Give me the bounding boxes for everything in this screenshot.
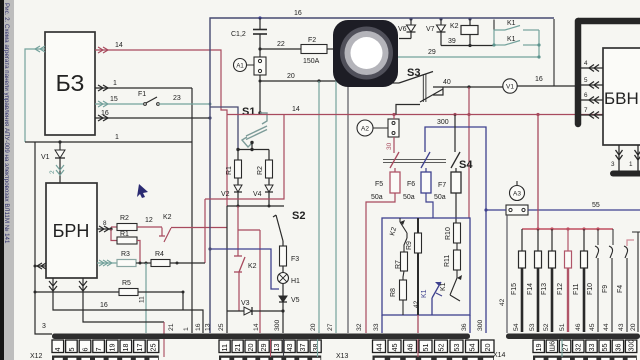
diode V5 bbox=[279, 296, 300, 311]
ammeter A3 with shunt bbox=[506, 181, 528, 215]
svg-text:53: 53 bbox=[529, 323, 536, 331]
wire teal loop left of БЗ bbox=[25, 46, 45, 142]
relay contact K2 (left) bbox=[159, 228, 227, 243]
connector X14 pins group D bbox=[533, 340, 637, 353]
node V5-V3 bbox=[281, 309, 284, 312]
resistor R2 bbox=[111, 215, 137, 231]
svg-text:13: 13 bbox=[272, 344, 281, 352]
fuse F6 50a bbox=[403, 168, 433, 218]
svg-text:300: 300 bbox=[477, 319, 484, 331]
svg-text:51: 51 bbox=[559, 323, 566, 331]
svg-text:52: 52 bbox=[436, 344, 445, 352]
svg-text:22: 22 bbox=[277, 41, 285, 48]
svg-text:45: 45 bbox=[390, 344, 399, 352]
ammeter A1 with shunt bbox=[234, 57, 267, 75]
svg-text:6: 6 bbox=[584, 92, 588, 99]
svg-text:44: 44 bbox=[374, 344, 383, 352]
svg-text:S1: S1 bbox=[242, 106, 255, 118]
thick frame top right bbox=[578, 18, 640, 25]
svg-text:R4: R4 bbox=[155, 251, 164, 258]
wire 12 bbox=[137, 226, 162, 228]
svg-text:S3: S3 bbox=[407, 67, 420, 79]
wire 300 blue bbox=[425, 127, 486, 333]
wire pass-through 27D bbox=[561, 339, 563, 357]
svg-text:27: 27 bbox=[327, 323, 334, 331]
fuse F3 bbox=[280, 246, 300, 273]
svg-text:20: 20 bbox=[630, 323, 637, 331]
svg-text:11: 11 bbox=[220, 344, 229, 351]
svg-text:R8: R8 bbox=[390, 288, 397, 297]
fuse F15 bbox=[511, 229, 526, 332]
svg-text:V1: V1 bbox=[41, 154, 50, 161]
wire 20 bbox=[260, 75, 348, 81]
svg-text:46: 46 bbox=[405, 344, 414, 352]
svg-text:23: 23 bbox=[173, 95, 181, 102]
wire grey vertical mid bbox=[347, 81, 349, 333]
connector X12 pins group B bbox=[219, 340, 321, 353]
resistor R4 bbox=[151, 251, 205, 267]
БРН bottom pin wire 21 bbox=[79, 278, 164, 322]
svg-text:R9: R9 bbox=[406, 241, 413, 250]
svg-text:K1: K1 bbox=[507, 20, 516, 27]
diode V4 bbox=[253, 185, 273, 206]
resistor R11 bbox=[444, 243, 461, 270]
relay contact K2 (mid) bbox=[234, 256, 245, 272]
diode V1 bbox=[41, 142, 65, 183]
svg-text:V4: V4 bbox=[253, 191, 262, 198]
fuse F11 bbox=[573, 229, 588, 332]
wire 3 left vertical bbox=[35, 142, 52, 334]
switch S3 bbox=[385, 67, 443, 115]
svg-text:20: 20 bbox=[310, 323, 317, 331]
svg-text:7: 7 bbox=[94, 348, 103, 352]
wire 25 to connector bbox=[226, 206, 228, 333]
svg-text:21: 21 bbox=[233, 344, 242, 352]
svg-text:F2: F2 bbox=[308, 37, 316, 44]
svg-text:32: 32 bbox=[574, 344, 583, 352]
fuse F14 bbox=[527, 229, 542, 332]
svg-text:50a: 50a bbox=[434, 194, 446, 201]
diode V2 bbox=[221, 185, 242, 206]
svg-text:11: 11 bbox=[139, 296, 146, 303]
block БВН bbox=[603, 48, 640, 145]
svg-text:F5: F5 bbox=[375, 181, 383, 188]
wire 14 right pink bbox=[627, 240, 634, 246]
resistor R5 bbox=[34, 280, 185, 310]
wire 23 bbox=[159, 103, 210, 105]
svg-text:21: 21 bbox=[168, 323, 175, 331]
pin 8 wire bbox=[97, 226, 111, 232]
svg-text:44: 44 bbox=[603, 323, 610, 331]
svg-text:4: 4 bbox=[53, 348, 62, 352]
svg-text:Ш6: Ш6 bbox=[547, 341, 556, 352]
svg-text:19: 19 bbox=[108, 344, 117, 352]
svg-text:F1: F1 bbox=[138, 91, 146, 98]
fuse F12 bbox=[557, 229, 572, 332]
wire 15 from БЗ bbox=[95, 101, 143, 107]
svg-text:32: 32 bbox=[356, 323, 363, 331]
wire 39 bbox=[441, 45, 494, 47]
svg-text:Рис. 2. Схема агрегата панели: Рис. 2. Схема агрегата панели управления… bbox=[3, 3, 10, 244]
capacitor C1,2 bbox=[231, 18, 267, 57]
connector X12 bar bbox=[52, 334, 470, 340]
svg-text:20: 20 bbox=[287, 73, 295, 80]
node V1 top bbox=[58, 140, 61, 143]
svg-text:53: 53 bbox=[452, 344, 461, 352]
wire pass-through 42 bbox=[417, 339, 419, 357]
wire 29 teal bbox=[336, 56, 539, 58]
fuse F13 bbox=[541, 229, 556, 332]
svg-text:150A: 150A bbox=[303, 58, 320, 65]
svg-text:K1: K1 bbox=[440, 282, 447, 291]
svg-text:R1: R1 bbox=[120, 231, 129, 238]
svg-text:39: 39 bbox=[448, 38, 456, 45]
svg-text:F3: F3 bbox=[291, 256, 299, 263]
svg-text:29: 29 bbox=[428, 49, 436, 56]
wire 40 bbox=[433, 86, 503, 88]
svg-text:R3: R3 bbox=[121, 251, 130, 258]
wire 22 bbox=[258, 47, 261, 50]
svg-text:БЗ: БЗ bbox=[56, 70, 85, 96]
wire 300 drop bbox=[282, 311, 284, 333]
svg-text:R5: R5 bbox=[122, 280, 131, 287]
wire 42 grey vertical bbox=[506, 215, 508, 333]
svg-text:5: 5 bbox=[584, 77, 588, 84]
thick bar below БВН bbox=[613, 171, 640, 177]
resistor R10 bbox=[445, 223, 461, 243]
svg-text:K2: K2 bbox=[450, 23, 459, 30]
svg-text:36: 36 bbox=[613, 344, 622, 352]
svg-text:A1: A1 bbox=[236, 64, 244, 70]
svg-text:S2: S2 bbox=[292, 210, 305, 222]
svg-text:X12: X12 bbox=[30, 353, 43, 360]
svg-text:43: 43 bbox=[285, 344, 294, 352]
wire 55 blue bbox=[486, 209, 640, 211]
svg-text:V6: V6 bbox=[398, 26, 407, 33]
svg-text:1: 1 bbox=[629, 161, 633, 168]
wire 20 drop to connector bbox=[318, 81, 320, 333]
svg-text:52: 52 bbox=[543, 323, 550, 331]
БВН bottom pin 3 bbox=[616, 145, 623, 171]
svg-text:R7: R7 bbox=[395, 260, 402, 269]
БВН pin 7 bbox=[581, 112, 603, 119]
svg-text:БВН: БВН bbox=[604, 89, 639, 108]
svg-text:R10: R10 bbox=[445, 227, 452, 240]
svg-text:F9: F9 bbox=[602, 285, 609, 293]
svg-text:16: 16 bbox=[100, 302, 108, 309]
switch S1 bbox=[210, 81, 269, 160]
switch S2 bbox=[273, 210, 305, 246]
wire blue H1 feed bbox=[210, 249, 279, 289]
svg-text:37: 37 bbox=[298, 344, 307, 352]
webcam overlay bbox=[333, 20, 398, 87]
svg-text:40: 40 bbox=[443, 79, 451, 86]
svg-text:R1: R1 bbox=[226, 166, 233, 175]
svg-text:F11: F11 bbox=[573, 283, 580, 295]
svg-text:43: 43 bbox=[618, 323, 625, 331]
svg-text:14: 14 bbox=[292, 106, 300, 113]
resistor R7 bbox=[395, 238, 408, 271]
resistor R2 (S1 branch) bbox=[257, 160, 273, 185]
БРН left pin arrows bbox=[35, 263, 46, 269]
svg-text:55: 55 bbox=[592, 202, 600, 209]
resistor R8 bbox=[390, 271, 407, 315]
wire 27 teal vertical bbox=[335, 57, 337, 333]
wire S4 black feed bbox=[454, 115, 456, 153]
wire 1 from БЗ bbox=[95, 85, 192, 91]
wire 2 chevrons bbox=[56, 165, 64, 175]
svg-text:42: 42 bbox=[413, 300, 420, 308]
svg-text:F6: F6 bbox=[407, 181, 415, 188]
svg-text:A3: A3 bbox=[513, 191, 521, 198]
БВН pin 5 bbox=[581, 82, 603, 89]
relay logic box bbox=[382, 218, 470, 315]
svg-text:K1: K1 bbox=[421, 289, 428, 298]
lamp H1 bbox=[278, 273, 301, 297]
svg-text:F7: F7 bbox=[438, 182, 446, 189]
resistor R3 bbox=[97, 251, 136, 267]
wire 12 vertical crimson bbox=[204, 199, 206, 263]
relay contact K1 (blue) bbox=[421, 282, 442, 315]
svg-text:45: 45 bbox=[589, 323, 596, 331]
fuse F10 bbox=[587, 229, 599, 332]
svg-text:54: 54 bbox=[513, 323, 520, 331]
node R3-R4 bbox=[136, 262, 151, 264]
relay contact K1 lower bbox=[494, 30, 539, 57]
svg-text:300: 300 bbox=[627, 340, 636, 352]
wire 14 long crimson bbox=[227, 114, 636, 116]
svg-text:55: 55 bbox=[600, 344, 609, 352]
svg-text:A2: A2 bbox=[361, 126, 369, 133]
wire 30 bbox=[393, 137, 395, 153]
relay contact K2 (box) bbox=[389, 218, 407, 238]
svg-text:K1: K1 bbox=[507, 36, 516, 43]
fuse rail crimson bbox=[522, 228, 613, 230]
svg-text:2: 2 bbox=[49, 170, 56, 174]
fuse F9 bbox=[602, 229, 613, 332]
diode V7 bbox=[426, 17, 446, 45]
diode V6 bbox=[398, 17, 416, 38]
svg-text:300: 300 bbox=[437, 119, 449, 126]
БВН pin 4 bbox=[581, 65, 603, 72]
wire pass-through 300 bbox=[283, 339, 285, 357]
connector X14 bar bbox=[506, 334, 640, 340]
БВН pin 6 bbox=[581, 97, 603, 104]
svg-text:F14: F14 bbox=[527, 283, 534, 295]
svg-text:33: 33 bbox=[373, 323, 380, 331]
svg-text:300: 300 bbox=[274, 319, 281, 331]
connector X13 pins group C bbox=[373, 340, 495, 353]
svg-text:33: 33 bbox=[587, 344, 596, 352]
svg-text:50a: 50a bbox=[403, 194, 415, 201]
svg-text:15: 15 bbox=[110, 96, 118, 103]
svg-text:1: 1 bbox=[115, 134, 119, 141]
wire 11 teal vertical bbox=[145, 263, 147, 333]
wire 1 vertical to connector bbox=[191, 88, 193, 333]
svg-text:1: 1 bbox=[183, 327, 190, 331]
fuse F2 150A bbox=[301, 37, 340, 65]
svg-text:R11: R11 bbox=[444, 255, 451, 267]
svg-text:17: 17 bbox=[135, 344, 144, 352]
fuse F5 50a bbox=[366, 168, 400, 333]
svg-text:C1,2: C1,2 bbox=[231, 31, 246, 38]
scan grey caption strip bbox=[4, 0, 14, 360]
svg-text:K2: K2 bbox=[248, 263, 257, 270]
svg-text:14: 14 bbox=[253, 323, 260, 331]
svg-text:X13: X13 bbox=[336, 353, 349, 360]
wire 36 drop bbox=[469, 315, 471, 333]
diode V3 bbox=[227, 300, 283, 315]
svg-text:20: 20 bbox=[483, 344, 492, 352]
svg-text:F4: F4 bbox=[617, 285, 624, 293]
resistor R9 bbox=[406, 218, 422, 315]
enclosure box right bbox=[553, 19, 555, 86]
svg-text:8: 8 bbox=[103, 220, 107, 227]
block БРН bbox=[46, 183, 97, 278]
БВН bottom pin 1 bbox=[635, 145, 640, 171]
wire pass-through 38 bbox=[317, 339, 319, 357]
wire 14 from БЗ bbox=[95, 47, 227, 206]
svg-text:16: 16 bbox=[294, 10, 302, 17]
wire 40-14 link bbox=[468, 87, 470, 218]
svg-text:X14: X14 bbox=[493, 352, 506, 359]
svg-text:S4: S4 bbox=[459, 159, 473, 171]
svg-text:54: 54 bbox=[467, 344, 476, 352]
connector X12 pins group A bbox=[52, 340, 159, 353]
wire 42 crimson drop bbox=[417, 315, 419, 333]
wire 33 drop bbox=[381, 315, 383, 333]
svg-text:R2: R2 bbox=[120, 215, 129, 222]
svg-text:V2: V2 bbox=[221, 191, 230, 198]
wire 14 box crimson bbox=[205, 115, 284, 200]
block БЗ bbox=[45, 32, 95, 135]
svg-text:42: 42 bbox=[499, 298, 506, 306]
wire 16 top blue bbox=[210, 18, 554, 333]
wire from K2 to V3 bbox=[238, 272, 240, 311]
scan left black edge bbox=[0, 0, 4, 360]
svg-text:19: 19 bbox=[534, 344, 543, 352]
wire 16 from БЗ bbox=[208, 116, 211, 119]
voltmeter V1 bbox=[503, 76, 578, 93]
wire 20 right edge bbox=[632, 232, 640, 332]
svg-text:БРН: БРН bbox=[53, 221, 90, 241]
svg-text:V1: V1 bbox=[506, 84, 514, 91]
wire 14 feed to fuse rail bbox=[537, 115, 539, 230]
pointer cursor bbox=[137, 184, 148, 198]
svg-text:29: 29 bbox=[259, 344, 268, 352]
svg-text:38: 38 bbox=[311, 344, 320, 352]
svg-text:R2: R2 bbox=[257, 166, 264, 175]
wire 14 mid crimson bbox=[238, 206, 260, 333]
svg-text:F12: F12 bbox=[557, 283, 564, 295]
ammeter A2 with shunt bbox=[357, 115, 399, 138]
svg-text:H1: H1 bbox=[291, 278, 300, 285]
connector lower row bbox=[52, 356, 637, 360]
switch S4 bbox=[383, 152, 473, 171]
svg-text:1: 1 bbox=[113, 80, 117, 87]
svg-text:14: 14 bbox=[115, 42, 123, 49]
svg-text:50a: 50a bbox=[371, 194, 383, 201]
svg-text:K2: K2 bbox=[163, 214, 172, 221]
svg-text:12: 12 bbox=[145, 217, 153, 224]
relay coil K2 bbox=[450, 17, 478, 45]
БРН bottom pin wire 16 bbox=[49, 278, 203, 333]
wire labels row bbox=[168, 319, 637, 331]
svg-text:20: 20 bbox=[246, 344, 255, 352]
resistor R1 (S1 branch) bbox=[226, 160, 242, 185]
svg-text:4: 4 bbox=[584, 60, 588, 67]
svg-text:30: 30 bbox=[386, 142, 393, 150]
svg-text:51: 51 bbox=[421, 344, 430, 352]
svg-text:25: 25 bbox=[218, 323, 225, 331]
wire 1 horizontal lower bbox=[25, 141, 192, 143]
svg-text:F10: F10 bbox=[587, 283, 594, 295]
relay contact K1 (black) bbox=[440, 270, 462, 301]
svg-text:16: 16 bbox=[101, 110, 109, 117]
node line under diodes bbox=[227, 205, 284, 207]
svg-text:3: 3 bbox=[611, 161, 615, 168]
svg-text:16: 16 bbox=[195, 323, 202, 331]
svg-text:25: 25 bbox=[148, 344, 157, 352]
wire pass-through 13 bbox=[270, 339, 272, 357]
svg-text:V7: V7 bbox=[426, 26, 435, 33]
fuse F7 50a bbox=[434, 168, 461, 223]
svg-text:6: 6 bbox=[80, 348, 89, 352]
svg-text:F15: F15 bbox=[511, 283, 518, 295]
svg-text:46: 46 bbox=[575, 323, 582, 331]
resistor R1 bbox=[111, 229, 140, 263]
relay contact K1 upper bbox=[494, 26, 539, 46]
fuse F4 bbox=[617, 246, 628, 332]
svg-text:18: 18 bbox=[121, 344, 130, 352]
svg-text:7: 7 bbox=[584, 107, 588, 114]
svg-text:3: 3 bbox=[42, 323, 46, 330]
fuse F1 bbox=[138, 91, 159, 105]
wire pass-through 21 bbox=[163, 339, 165, 357]
svg-text:36: 36 bbox=[461, 323, 468, 331]
svg-text:F13: F13 bbox=[541, 283, 548, 295]
svg-text:V3: V3 bbox=[241, 300, 250, 307]
svg-text:V5: V5 bbox=[291, 297, 300, 304]
svg-text:13: 13 bbox=[205, 323, 212, 331]
svg-text:5: 5 bbox=[67, 348, 76, 352]
svg-text:16: 16 bbox=[535, 76, 543, 83]
